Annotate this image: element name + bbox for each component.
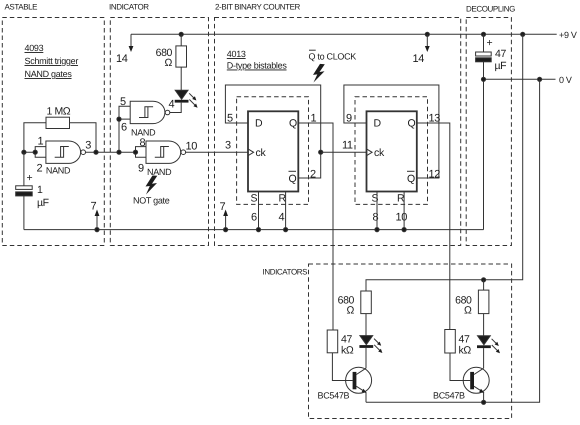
svg-text:1 MΩ: 1 MΩ (47, 106, 71, 118)
wire U1c output to clock (186, 151, 248, 153)
LED D2 emission arrows (374, 339, 382, 353)
LED D2 triangle (360, 336, 373, 345)
svg-text:3: 3 (225, 140, 231, 152)
wire LED D1 cathode down (170, 103, 181, 113)
svg-text:ck: ck (374, 147, 385, 159)
feedback wire U2b Qbar to D (344, 85, 439, 178)
flip-flop U2b body (367, 111, 417, 191)
lightning bolt NOT gate (146, 176, 158, 195)
wire 0V rail (484, 78, 556, 80)
svg-text:BC547B: BC547B (433, 391, 465, 401)
LED D1 triangle (175, 90, 188, 99)
label Qbar U2a (289, 173, 297, 185)
node junction dot R2 top (179, 32, 183, 36)
svg-text:NAND: NAND (131, 128, 156, 138)
transistor Q2 circle (463, 367, 489, 393)
svg-text:Ω: Ω (165, 57, 173, 69)
wire feed to R5 (483, 280, 485, 290)
lightning bolt clock (313, 64, 325, 83)
transistor Q1 base bar (353, 372, 357, 389)
capacitor C2 top plate (476, 52, 492, 56)
wire R5 to LED3 (483, 314, 485, 336)
pin 14 arrow U2 (425, 32, 430, 52)
svg-text:7: 7 (91, 201, 97, 213)
node dot S1 (256, 228, 260, 232)
wire U1a output (86, 151, 136, 153)
node dot C2 top (481, 32, 485, 36)
svg-text:Q to CLOCK: Q to CLOCK (309, 52, 357, 62)
LED D1 cathode bar (175, 100, 189, 103)
pin 7 arrow counter (223, 210, 228, 232)
svg-text:Ω: Ω (347, 305, 355, 317)
svg-text:Q: Q (289, 173, 297, 185)
svg-text:NAND: NAND (147, 167, 172, 177)
dashed box ASTABLE (2, 18, 104, 246)
svg-text:2-BIT BINARY COUNTER: 2-BIT BINARY COUNTER (215, 3, 301, 12)
wire C2 top (483, 34, 485, 52)
wire Q1 emitter down (365, 392, 367, 402)
dashed box INDICATOR (110, 18, 208, 246)
label C2 value (495, 48, 507, 72)
svg-text:11: 11 (342, 140, 353, 152)
wire 0V bottom rail (24, 229, 484, 231)
node junction dot main line (117, 150, 121, 154)
node junction dot feedback (94, 150, 98, 154)
svg-text:10: 10 (396, 212, 408, 224)
transistor Q1 collector (356, 368, 366, 374)
svg-text:2: 2 (310, 169, 316, 181)
wire C2 bottom to bottom rail (483, 62, 485, 230)
resistor R5 680 indicator2 (478, 290, 489, 314)
label Qbar to CLOCK (309, 52, 357, 62)
svg-text:µF: µF (37, 197, 49, 209)
svg-text:6: 6 (251, 212, 257, 224)
svg-text:D: D (255, 118, 263, 130)
svg-text:4: 4 (169, 99, 175, 111)
node dot R1 (284, 228, 288, 232)
resistor R3 680 indicator1 (361, 291, 372, 314)
dashed box INDICATORS (309, 264, 512, 419)
dashed box 2-BIT BINARY COUNTER (215, 18, 461, 246)
svg-text:9: 9 (346, 113, 352, 125)
wire feedback left (24, 123, 46, 152)
node clock tap dot (319, 150, 323, 154)
svg-text:4: 4 (279, 212, 285, 224)
capacitor C1 top plate (16, 186, 33, 190)
wire C1 top (23, 152, 25, 186)
svg-text:kΩ: kΩ (459, 345, 472, 357)
bubble U1a (81, 150, 86, 155)
wire R2 to LED (180, 67, 182, 90)
svg-text:kΩ: kΩ (341, 345, 354, 357)
wire R6 to base T2 (450, 353, 470, 381)
svg-text:ASTABLE: ASTABLE (5, 3, 38, 12)
feedback wire U2a Qbar to D (225, 85, 320, 178)
svg-text:NOT gate: NOT gate (133, 196, 170, 206)
NAND gate U1c body (146, 141, 181, 163)
node dot emitter rail (482, 400, 486, 404)
node junction dot A2 (33, 150, 37, 154)
pin 14 arrow U1 (129, 34, 134, 52)
wire C1 bottom (23, 196, 25, 230)
svg-text:+: + (27, 172, 33, 184)
node junction dot U1b input (117, 117, 121, 121)
LED D3 cathode bar (477, 345, 491, 348)
wire R4 to base T1 (332, 353, 352, 381)
LED D3 triangle (478, 336, 491, 345)
wire U2b R to 0V (403, 192, 405, 230)
transistor Q2 emitter (474, 386, 484, 392)
wire input bracket U1a (24, 147, 46, 158)
wire LED D3 to collector T2 (483, 348, 485, 368)
node dot R2 (402, 228, 406, 232)
wire feedback right (70, 123, 97, 152)
svg-text:8: 8 (140, 137, 146, 149)
pin 7 arrow astable (95, 210, 100, 232)
capacitor C1 bottom plate (16, 192, 33, 196)
label 4013 D-type bistables (227, 49, 288, 71)
svg-text:6: 6 (121, 122, 127, 134)
svg-text:14: 14 (116, 53, 128, 65)
node junction dot A1 (22, 150, 26, 154)
svg-text:Ω: Ω (464, 305, 472, 317)
dashed box flip-flop 2 (355, 97, 428, 205)
capacitor C2 bottom plate (476, 58, 492, 62)
transistor Q2 base bar (470, 372, 474, 389)
node dot C2 0V (481, 77, 485, 81)
svg-text:Q: Q (289, 118, 297, 130)
node dot +9V drop (521, 32, 525, 36)
wire U2a S to 0V (258, 192, 260, 230)
svg-text:2: 2 (37, 163, 43, 175)
LED D1 emission arrows (189, 93, 197, 107)
svg-text:+9 V: +9 V (559, 30, 577, 40)
svg-text:µF: µF (495, 60, 507, 72)
node junction dot U1c input (133, 150, 137, 154)
transistor Q1 circle (346, 367, 372, 393)
svg-text:D-type bistables: D-type bistables (227, 61, 288, 71)
wire Q2 output (417, 123, 450, 330)
wire +9V drop to indicators (366, 34, 523, 291)
svg-text:NAND gates: NAND gates (25, 69, 73, 79)
svg-text:7: 7 (220, 201, 226, 213)
resistor R4 47k (327, 330, 338, 353)
svg-text:BC547B: BC547B (318, 391, 350, 401)
bubble U1b (165, 110, 170, 115)
schmitt symbol U1a (55, 147, 69, 158)
resistor R2 680 (176, 46, 187, 67)
wire riser to U1b inputs (118, 119, 120, 152)
schmitt symbol U1b (139, 107, 153, 118)
svg-text:12: 12 (429, 169, 441, 181)
NAND gate U1b body (130, 101, 165, 123)
wire 0V drop to emitter rail (366, 79, 540, 402)
svg-text:1: 1 (37, 184, 43, 196)
svg-text:NAND: NAND (46, 166, 71, 176)
svg-text:47: 47 (495, 48, 506, 60)
clock triangle U2b (367, 149, 373, 156)
svg-text:+: + (487, 37, 493, 49)
clock triangle U2a (248, 149, 254, 156)
LED D2 cathode bar (359, 345, 373, 348)
bubble U1c (181, 150, 186, 155)
svg-text:S: S (251, 193, 258, 205)
svg-text:DECOUPLING: DECOUPLING (466, 5, 515, 14)
transistor Q2 collector (474, 368, 484, 374)
node dot 0V drop (538, 77, 542, 81)
wire R3 to LED2 (365, 314, 367, 336)
wire LED D2 to collector T1 (365, 348, 367, 368)
wire Q1 output (298, 123, 333, 330)
svg-text:5: 5 (120, 96, 126, 108)
svg-text:5: 5 (227, 113, 233, 125)
svg-text:Schmitt trigger: Schmitt trigger (25, 56, 79, 66)
resistor R6 47k (445, 330, 456, 354)
svg-text:Q: Q (407, 173, 415, 185)
svg-text:ck: ck (256, 147, 267, 159)
svg-text:14: 14 (413, 53, 425, 65)
LED D3 emission arrows (492, 339, 500, 353)
dashed box DECOUPLING (466, 18, 511, 246)
wire input bracket U1c (136, 147, 147, 158)
svg-text:1: 1 (38, 136, 44, 148)
resistor R1 1 MOhm (46, 117, 70, 128)
wire input bracket U1b (119, 106, 130, 119)
wire U2a R to 0V (285, 192, 287, 230)
svg-text:Q: Q (408, 118, 416, 130)
label C1 value (37, 184, 49, 209)
label Qbar U2b (407, 173, 415, 185)
wire clock to U2b (321, 151, 367, 153)
label 4093 Schmitt trigger NAND gates (25, 43, 79, 79)
svg-text:9: 9 (138, 163, 144, 175)
NAND gate U1a body (46, 141, 81, 163)
svg-text:4013: 4013 (227, 49, 246, 59)
transistor Q1 emitter arrow (362, 389, 367, 393)
svg-text:D: D (374, 118, 382, 130)
dashed box flip-flop 1 (237, 97, 309, 205)
node dot indicators feed (482, 278, 486, 282)
svg-text:10: 10 (186, 141, 198, 153)
wire Q2 emitter down (483, 392, 485, 402)
transistor Q2 emitter arrow (479, 389, 484, 393)
svg-text:INDICATORS: INDICATORS (263, 268, 308, 277)
svg-text:INDICATOR: INDICATOR (109, 3, 149, 12)
wire +9V rail (131, 33, 557, 35)
flip-flop U2a body (248, 111, 298, 191)
transistor Q1 emitter (356, 386, 366, 392)
wire U2b S to 0V (376, 192, 378, 230)
svg-text:0 V: 0 V (559, 75, 572, 85)
svg-text:3: 3 (85, 140, 91, 152)
svg-text:8: 8 (373, 212, 379, 224)
wire R2 top (180, 34, 182, 46)
svg-text:4093: 4093 (25, 43, 44, 53)
node dot S2 (375, 228, 379, 232)
schmitt symbol U1c (155, 147, 169, 158)
